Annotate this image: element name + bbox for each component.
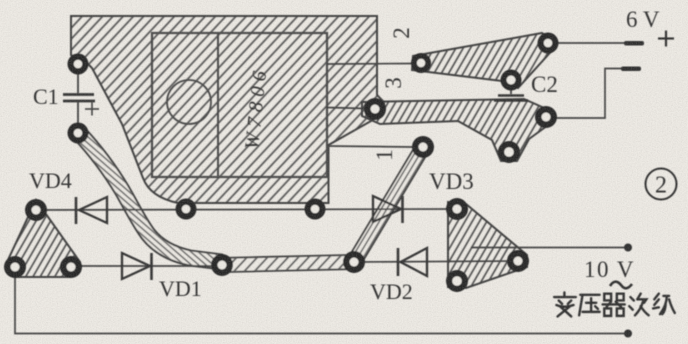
pad VD1 anode: [60, 256, 82, 278]
wire: AC line to right terminal dot: [471, 247, 627, 249]
wire: pin 2: [327, 63, 412, 66]
diode VD1: [122, 253, 152, 280]
wire: left AC down: [15, 270, 627, 334]
char 次: [629, 294, 648, 316]
trace: right triangle (AC node B): [448, 202, 527, 288]
wire: minus output L-shape: [556, 69, 623, 119]
char 级: [653, 294, 675, 315]
figure number circled 2: [646, 169, 677, 200]
wire: bridge upper rail y=210: [36, 209, 457, 210]
char 压: [579, 295, 600, 316]
trace: top triangle pin2/out+: [412, 33, 557, 88]
capacitor C1: [63, 72, 99, 123]
regulator U1 body outline: [152, 33, 327, 177]
pad out-: [535, 106, 557, 128]
pad C2 top: [501, 70, 522, 91]
diode VD3: [373, 196, 403, 223]
pad VD3 cathode: [446, 198, 468, 220]
pad AC left corner: [4, 256, 26, 278]
pad C1+: [68, 54, 89, 75]
pad pour bottom 2: [305, 199, 326, 220]
regulator label W7806: [241, 65, 272, 151]
pad VD2 cathode: [507, 250, 529, 272]
pad out+: [538, 33, 559, 54]
trace: diagonal strip pin1 pad to VD2 anode: [354, 147, 423, 262]
wire: bridge lower rail left: [71, 265, 222, 267]
pad middle trace bottom: [498, 141, 520, 163]
diode VD4: [76, 197, 107, 224]
char 变: [554, 293, 576, 317]
trace: C1 negative to VD1 cathode (narrow bent strip): [79, 133, 222, 262]
tilde AC mark: [610, 282, 632, 289]
terminal - bar: [621, 67, 641, 72]
trace: bottom band VD1 cathode to VD2 anode: [222, 262, 354, 265]
wire: bridge lower rail right: [354, 261, 518, 262]
label transformer secondary (hand-drawn CJK): [554, 293, 675, 317]
regulator mounting hole: [167, 80, 211, 124]
node dot AC2: [624, 330, 632, 338]
pad right triangle bottom: [446, 270, 468, 292]
trace: middle wide band pin3 to output minus: [362, 99, 551, 161]
pad VD4 cathode: [25, 199, 47, 221]
wire: 6V+ output: [557, 42, 626, 44]
trace: bottom-left triangle (AC node A): [7, 200, 80, 277]
pad pour bottom 1: [176, 199, 197, 220]
pad pin 2 wire: [411, 53, 431, 73]
copper pour (ground plane, hatched): [71, 16, 384, 203]
char 器: [603, 294, 625, 316]
capacitor C2: [494, 89, 528, 101]
pad pin 3: [364, 98, 386, 120]
node dot AC1: [624, 244, 632, 252]
plus sign output: [658, 31, 674, 47]
wire: pin 3: [327, 108, 366, 109]
wire: pin 1: [328, 146, 413, 147]
pad VD1 cathode: [211, 254, 233, 276]
pad C1-: [68, 123, 89, 144]
diode VD2: [398, 248, 427, 276]
pad VD2 anode: [343, 251, 365, 273]
terminal + bar: [624, 41, 644, 46]
pad pin 1: [412, 136, 434, 158]
